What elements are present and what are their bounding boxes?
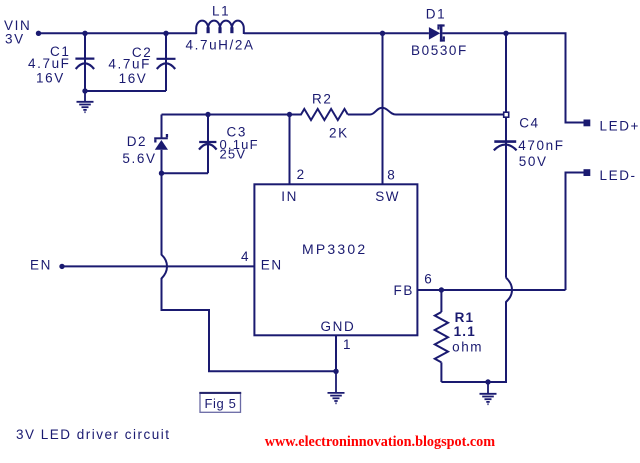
terminal dot EN (59, 264, 64, 269)
svg-text:L1: L1 (212, 4, 230, 19)
wire C2 branch (165, 33, 167, 91)
ground symbol G2 (GND pin) (328, 371, 345, 403)
wire D2 top rail (162, 114, 290, 116)
wire R1 bottom lead (440, 362, 442, 382)
svg-text:ohm: ohm (452, 339, 483, 354)
svg-text:R1: R1 (455, 310, 475, 325)
svg-text:EN: EN (30, 258, 52, 273)
wire IN pin (289, 115, 291, 185)
svg-text:FB: FB (394, 283, 414, 298)
capacitor C3 plates (199, 142, 217, 150)
wire C1-C2 bottom (85, 90, 166, 92)
svg-text:2: 2 (297, 167, 306, 182)
node square R2/C4 junction (504, 112, 509, 117)
svg-text:D1: D1 (426, 6, 446, 21)
junction node OUT top (503, 31, 508, 36)
svg-text:470nF: 470nF (518, 138, 564, 153)
resistor R1 zigzag (435, 312, 448, 362)
svg-text:4.7uF: 4.7uF (108, 57, 151, 72)
terminal dot VIN (36, 31, 41, 36)
svg-text:MP3302: MP3302 (302, 241, 367, 257)
svg-text:D2: D2 (127, 134, 147, 149)
svg-text:Fig 5: Fig 5 (205, 396, 237, 411)
junction bottom-right ground (485, 379, 490, 384)
wire VIN rail (39, 32, 197, 34)
ground symbol G3 (C4/R1) (480, 382, 497, 404)
svg-text:GND: GND (321, 319, 356, 334)
wire C4 below cap with hop over FB (441, 278, 512, 382)
wire D1 cathode to node OUT (442, 33, 583, 122)
svg-text:SW: SW (375, 189, 400, 204)
svg-text:50V: 50V (519, 154, 548, 169)
wire C3 branch (207, 115, 209, 174)
capacitor C1 plates (75, 59, 94, 69)
Fig 5 box (200, 393, 241, 412)
junction C1 top (82, 31, 87, 36)
svg-text:1: 1 (343, 337, 352, 352)
svg-text:4.7uF: 4.7uF (28, 56, 71, 71)
wire EN input (62, 265, 254, 267)
wire L1 to node SW (244, 32, 429, 34)
svg-text:3V: 3V (5, 32, 25, 47)
inductor L1 humps (196, 21, 244, 34)
capacitor C4 plates (494, 142, 517, 151)
svg-text:R2: R2 (312, 91, 332, 106)
junction node SW top (380, 31, 385, 36)
wire SW vertical (382, 33, 384, 184)
svg-text:B0530F: B0530F (411, 43, 468, 58)
svg-text:1.1: 1.1 (454, 324, 476, 339)
svg-text:IN: IN (281, 189, 298, 204)
svg-text:25V: 25V (220, 146, 247, 161)
resistor R2 zigzag (290, 109, 348, 120)
LED- terminal square (584, 169, 591, 176)
IC U1 MP3302 box (254, 184, 417, 335)
svg-text:16V: 16V (119, 71, 148, 86)
wire GND pin 1 (335, 335, 337, 371)
svg-text:16V: 16V (36, 70, 65, 85)
junction C2 top (163, 31, 168, 36)
svg-text:LED+: LED+ (600, 119, 640, 134)
wire C1 branch (84, 33, 86, 91)
svg-text:C4: C4 (519, 116, 539, 131)
svg-text:4: 4 (241, 249, 250, 264)
junction FB / R1 (439, 287, 444, 292)
svg-text:EN: EN (261, 257, 283, 272)
svg-text:8: 8 (387, 168, 396, 183)
wire FB line (417, 289, 565, 291)
svg-text:3V LED driver circuit: 3V LED driver circuit (16, 427, 171, 442)
diode D1 schottky (429, 24, 445, 41)
svg-text:4.7uH/2A: 4.7uH/2A (186, 38, 255, 53)
ground symbol G1 (C1/C2) (77, 91, 94, 112)
inductor L1 loop blobs (208, 27, 232, 33)
wire LED- drop (566, 173, 584, 291)
svg-text:www.electroninnovation.blogspo: www.electroninnovation.blogspot.com (265, 434, 495, 450)
LED+ terminal square (584, 120, 591, 127)
zener diode D2 (154, 115, 168, 174)
svg-text:2K: 2K (329, 126, 349, 141)
svg-text:6: 6 (424, 271, 433, 286)
wire R1 top lead (440, 290, 442, 312)
junction R2 left (287, 112, 292, 117)
svg-text:5.6V: 5.6V (122, 151, 156, 166)
junction GND pin (333, 369, 338, 374)
wire D2 anode down to GND with hop over EN (162, 173, 337, 371)
svg-text:LED-: LED- (600, 168, 637, 183)
junction C1 bottom (82, 88, 87, 93)
wire R2 right with hop (348, 108, 504, 115)
junction D2 anode (159, 171, 164, 176)
capacitor C2 plates (157, 59, 176, 69)
wire D2-C3 bottom (162, 172, 209, 174)
wire C4 vertical top (505, 33, 507, 277)
junction C3 top (205, 112, 210, 117)
